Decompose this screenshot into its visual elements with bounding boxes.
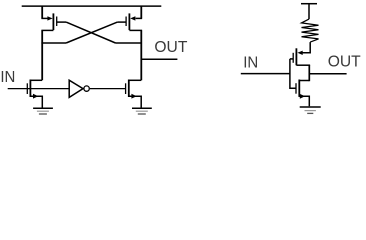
ground (right NMOS): [132, 108, 152, 114]
wire node A vertical (M1 drain to M3 drain): [41, 30, 43, 80]
M6 gate bar: [295, 83, 297, 94]
svg-text:OUT: OUT: [154, 39, 187, 56]
M3 source arrow: [33, 94, 38, 99]
transistor M3 (left NMOS): [27, 80, 42, 108]
M1 gate bar: [56, 17, 58, 27]
wire M1 source from rail: [41, 6, 43, 18]
transistor M5 (right circuit PMOS): [290, 48, 310, 65]
wire cross-couple diagonal B: [66, 22, 117, 43]
wire M4 drain: [129, 79, 141, 81]
svg-text:OUT: OUT: [328, 54, 361, 71]
transistor M6 (right circuit NMOS): [296, 80, 309, 107]
wire R1 to M5 source: [303, 42, 311, 53]
ground (right circuit): [300, 107, 321, 113]
wire M1 drain: [41, 29, 53, 31]
wire M1 gate stub: [57, 21, 66, 23]
wire M3 source: [30, 96, 42, 107]
M2 channel bar: [128, 13, 130, 30]
wire IN net (right circuit): [241, 73, 290, 75]
resistor R1: [302, 19, 319, 42]
transistor M2 (right cross-coupled PMOS): [117, 6, 142, 30]
M2 source arrow: [130, 16, 135, 20]
wire M2 drain: [129, 29, 142, 31]
wire M4 source: [129, 96, 141, 107]
wire node OUT2 vertical (M5 drain to M6 drain): [308, 65, 310, 81]
transistor M4 (right NMOS): [126, 80, 142, 108]
wire cross-couple left bottom: [41, 42, 66, 44]
wire M5 drain: [296, 64, 310, 66]
wire common gate line: [290, 59, 296, 88]
wire M6 drain: [299, 80, 309, 82]
M4 channel bar: [128, 80, 130, 98]
M6 channel bar: [298, 80, 300, 97]
ground (left NMOS): [33, 108, 53, 114]
M1 channel bar: [52, 13, 54, 30]
M5 gate bar: [292, 53, 294, 63]
M1 source arrow: [47, 16, 52, 20]
M6 source arrow: [300, 94, 305, 99]
wire M6 source: [299, 96, 309, 106]
wire node OUT vertical (M2 drain to M4 drain): [140, 30, 142, 80]
wire VDD rail (left circuit): [22, 5, 162, 7]
wire OUT (left circuit): [141, 58, 177, 60]
wire inverter output to M4 gate: [90, 88, 125, 90]
M3 gate bar: [26, 83, 28, 94]
inverter U1: [69, 80, 89, 97]
wire M5 gate stub: [290, 58, 293, 60]
wire M2 source from rail: [140, 6, 142, 18]
svg-text:IN: IN: [0, 69, 15, 86]
M4 source arrow: [131, 94, 136, 99]
M3 channel bar: [29, 80, 31, 98]
supply terminal (right circuit): [301, 4, 317, 19]
M4 gate bar: [125, 83, 127, 94]
M5 channel bar: [295, 48, 297, 65]
wire M2 gate stub: [117, 21, 126, 23]
M2 gate bar: [125, 17, 127, 27]
wire IN net (left circuit): [8, 88, 69, 90]
wire cross-couple right bottom: [116, 42, 142, 44]
M5 source arrow: [297, 51, 302, 55]
wire M3 drain: [30, 79, 42, 81]
wire OUT (right circuit): [309, 73, 346, 75]
transistor M1 (left cross-coupled PMOS): [41, 6, 66, 30]
wire cross-couple diagonal A: [66, 22, 115, 43]
svg-text:IN: IN: [243, 54, 258, 71]
